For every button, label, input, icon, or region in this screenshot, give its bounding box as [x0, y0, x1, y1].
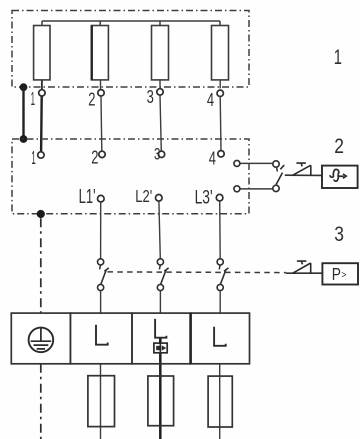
disconnector switch 3: bottom contact	[217, 284, 223, 290]
wire switch 3 to terminal block	[219, 291, 221, 314]
PE conductor (dash-dot) box2 to earth terminal	[40, 218, 42, 313]
terminal block: L box 2	[132, 313, 191, 364]
svg-text:2: 2	[88, 88, 95, 109]
contact moving arm	[276, 173, 282, 185]
node junction on box1 border	[20, 83, 28, 91]
disconnector switch 3: stub	[218, 265, 221, 269]
mechanical linkage (dashed)	[108, 271, 287, 274]
svg-text:3: 3	[147, 86, 154, 107]
svg-text:4: 4	[209, 147, 216, 168]
svg-text:1: 1	[334, 46, 342, 69]
wire terminal 1 to terminal 1' (thick)	[40, 96, 43, 152]
svg-text:P: P	[332, 264, 341, 284]
wire terminal 3	[160, 95, 161, 151]
temperature monitor box	[322, 166, 358, 188]
contact terminal top-right	[273, 161, 279, 167]
arrester F2	[91, 26, 108, 80]
disconnector switch 2: top contact	[157, 259, 163, 265]
arrester F4	[212, 26, 229, 80]
bus wire connecting arrester tops	[42, 21, 220, 26]
terminal circle 3 (box 2)	[158, 151, 164, 157]
wire L1' down to disconnector 1	[100, 202, 102, 259]
terminal circle 2 (box 1)	[98, 90, 104, 96]
terminal circle 4 (box 1)	[217, 90, 223, 96]
terminal circle 2 (box 2)	[99, 151, 105, 157]
wire L2' down to disconnector 2	[159, 201, 160, 259]
svg-text:3: 3	[154, 145, 160, 164]
thick shared edge L box 2/3	[189, 313, 192, 364]
enclosure box 1 (arrester module block)	[12, 11, 249, 88]
PE jumper wire between enclosures	[22, 87, 24, 139]
svg-text:3: 3	[334, 223, 344, 246]
wire contact to thermal release	[285, 174, 322, 176]
wire through fuse 3	[219, 364, 221, 439]
svg-text:2: 2	[334, 135, 344, 158]
terminal block: earth terminal box	[11, 313, 70, 364]
monitoring device symbol in box 2	[154, 343, 167, 353]
thermal/pressure release symbol	[293, 261, 311, 273]
thick left edge of arrester F2	[91, 26, 93, 80]
disconnector switch 2: arm tick	[164, 268, 168, 271]
wire F2 to terminal 2	[100, 80, 102, 89]
disconnector switch 2: arm	[161, 270, 166, 284]
wire F1 to terminal 1	[41, 80, 43, 89]
wire through fuse 1	[100, 364, 102, 439]
wire L3' down to disconnector 3	[219, 201, 222, 259]
PE conductor (dash-dot) below earth terminal	[40, 364, 42, 439]
wire switch 2 to terminal block	[159, 291, 161, 314]
disconnector switch 2: bottom contact	[157, 284, 163, 290]
svg-text:1: 1	[31, 88, 35, 109]
disconnector switch 3: arm	[220, 270, 225, 284]
wire linkage to pressure release	[286, 272, 322, 274]
fuse 2	[148, 376, 174, 426]
disconnector switch 3: top contact	[217, 259, 223, 265]
disconnector switch 1: arm tick	[104, 268, 108, 271]
arrester F1	[34, 26, 50, 80]
wire terminal 4	[219, 97, 222, 151]
contact terminal bottom-left	[234, 186, 240, 192]
fuse 3	[208, 376, 232, 427]
node junction on box2 border	[20, 135, 28, 143]
L-path symbol in box 1	[96, 325, 108, 345]
disconnector switch 1: top contact	[98, 259, 104, 265]
disconnector switch 1: arm	[101, 270, 106, 284]
disconnector switch 1: bottom contact	[98, 284, 104, 290]
terminal block: L box 1	[70, 313, 132, 364]
arrester F3	[152, 26, 169, 80]
contact arm end tick	[280, 165, 284, 169]
disconnector switch 3: arm tick	[224, 268, 228, 271]
svg-text:L1': L1'	[79, 186, 96, 208]
svg-text:>: >	[341, 269, 346, 281]
contact terminal top-left	[234, 160, 240, 166]
disconnector switch 1: stub	[99, 265, 102, 269]
terminal L2'	[156, 195, 163, 202]
terminal circle 1 (box 2)	[38, 152, 44, 158]
thermal release symbol (temperature actuator)	[292, 163, 311, 175]
L-path symbol in box 3	[214, 327, 226, 346]
wire F3 to terminal 3	[159, 80, 161, 89]
thick wire through fuse 2	[159, 338, 162, 439]
svg-text:L3': L3'	[195, 187, 213, 209]
svg-text:2: 2	[91, 146, 98, 167]
remote signalling contact: wire to left terminals	[240, 163, 272, 189]
svg-text:4: 4	[207, 89, 214, 110]
L-path symbol in box 2	[155, 319, 166, 338]
svg-text:1: 1	[31, 147, 35, 168]
disconnector switch 2: stub	[158, 265, 161, 269]
enclosure box 2 (base part block)	[12, 139, 249, 214]
svg-text:L2': L2'	[135, 186, 152, 206]
terminal circle 1 (box 1)	[39, 90, 45, 96]
wire terminal 2	[100, 96, 103, 151]
wire switch 1 to terminal block	[100, 291, 102, 314]
terminal circle 3 (box 1)	[157, 89, 163, 95]
terminal L3'	[216, 194, 223, 201]
thick stub above monitoring symbol	[159, 338, 162, 343]
wire F4 to terminal 4	[219, 80, 221, 89]
contact stub from top terminal	[276, 168, 279, 172]
terminal block: L box 3	[191, 313, 250, 364]
pressure monitor box	[322, 263, 358, 284]
terminal circle 4 (box 2)	[218, 151, 224, 157]
theta symbol in monitor box	[330, 169, 346, 181]
node junction PE on box2 border	[37, 210, 45, 218]
protective earth electrode symbol	[29, 328, 54, 353]
fuse 1	[88, 376, 115, 427]
contact terminal bottom-right	[273, 185, 279, 191]
terminal L1'	[98, 195, 105, 202]
